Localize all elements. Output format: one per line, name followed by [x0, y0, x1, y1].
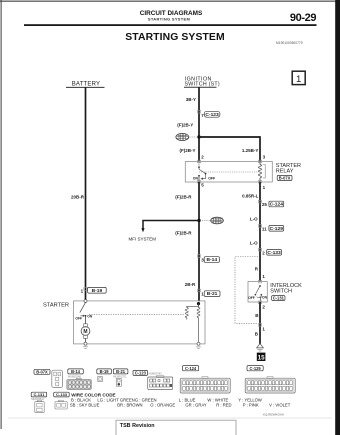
wire relay pin1 down to interlock switch: [259, 182, 261, 282]
A/T bypass dashed outline: [235, 257, 258, 324]
ground point number 15: [257, 353, 266, 362]
svg-text:O : ORANGE: O : ORANGE: [150, 402, 175, 407]
starter M1: box: [74, 301, 206, 344]
connector C-133 tick: [258, 248, 261, 251]
starter case ground left: [83, 342, 88, 348]
page right black bar: [335, 0, 340, 435]
connector label C-131 (legend): [31, 392, 47, 397]
ignition switch feed bar: [184, 86, 217, 88]
svg-text:C-124: C-124: [270, 202, 284, 208]
svg-text:C-129: C-129: [270, 226, 284, 232]
svg-text:OFF: OFF: [248, 296, 255, 300]
svg-text:V : VIOLET: V : VIOLET: [269, 402, 291, 407]
connector B-21 tick: [197, 289, 200, 292]
svg-text:MU801371: MU801371: [113, 374, 127, 378]
header rule: [24, 24, 317, 26]
svg-text:15: 15: [258, 354, 265, 361]
svg-text:RELAY: RELAY: [276, 169, 294, 175]
interlock switch: box: [248, 282, 267, 303]
svg-text:M1901000500779: M1901000500779: [276, 41, 303, 45]
svg-text:SWITCH: SWITCH: [270, 289, 292, 295]
connector label C-129 (legend): [247, 366, 263, 371]
page top border: [0, 1, 337, 2]
wire branch to MFI system: [143, 221, 199, 229]
svg-text:MU802546: MU802546: [68, 374, 82, 378]
wire battery to starter (20B-R): [85, 87, 87, 301]
svg-text:C-131: C-131: [34, 392, 46, 397]
svg-text:B-14: B-14: [206, 257, 217, 263]
numbered marker box 1: [292, 71, 305, 85]
svg-text:C-129: C-129: [250, 366, 262, 371]
connector label B-14 (legend): [68, 369, 84, 374]
svg-text:B-19: B-19: [92, 288, 103, 294]
svg-text:L-O: L-O: [250, 217, 258, 222]
svg-text:C-133: C-133: [267, 250, 281, 256]
connector C-123 tick: [197, 110, 200, 113]
interlock switch contact: [255, 280, 263, 303]
connector label C-131: [272, 296, 285, 301]
svg-text:B-07X: B-07X: [279, 175, 291, 180]
junction node MFI branch: [197, 219, 200, 222]
svg-text:ON: ON: [193, 177, 199, 181]
connector label B-21: [204, 291, 220, 297]
svg-text:OFF: OFF: [75, 316, 82, 320]
svg-text:ON: ON: [87, 315, 93, 319]
relay coil: [258, 162, 265, 182]
svg-text:STARTING SYSTEM: STARTING SYSTEM: [148, 16, 191, 21]
connector face C-124: [180, 377, 230, 393]
svg-text:M: M: [83, 329, 87, 335]
wire ignition switch down (3B-Y): [198, 87, 200, 161]
connector label C-124 (legend): [183, 366, 199, 371]
wire color code line 2: [70, 402, 291, 407]
svg-text:C-123: C-123: [135, 370, 147, 375]
svg-text:C-124: C-124: [185, 366, 197, 371]
TSB Revision box: [116, 420, 236, 435]
connector face B-19: [98, 377, 103, 382]
svg-text:L-O: L-O: [250, 240, 258, 245]
wire relay pin5 down to starter solenoid: [198, 182, 200, 301]
connector tick at bypass join: [258, 324, 261, 327]
starter motor: [81, 324, 90, 342]
svg-text:KQJRZWKGAA: KQJRZWKGAA: [263, 412, 284, 416]
svg-text:B-19: B-19: [100, 369, 110, 374]
solenoid mechanical dashed link: [89, 314, 184, 316]
svg-text:1: 1: [296, 74, 301, 85]
battery feed bar: [66, 86, 105, 88]
solenoid hold-in coil: [197, 304, 200, 343]
connector label C-133: [267, 250, 282, 256]
svg-text:P : PINK: P : PINK: [243, 402, 259, 407]
wire branch to starter relay coil: [199, 137, 260, 162]
starter relay U: box: [185, 162, 272, 183]
svg-text:BR : BROWN: BR : BROWN: [117, 402, 142, 407]
connector face C-123: [148, 376, 173, 390]
connector face C-131: [35, 400, 44, 412]
connector B-19 tick: [84, 288, 87, 291]
connector face B-21: [116, 378, 121, 386]
wire color code line 1: [71, 398, 262, 403]
junction node at ignition wire: [197, 135, 200, 138]
connector label C-124: [269, 201, 284, 207]
svg-text:TSB Revision: TSB Revision: [120, 423, 155, 429]
svg-text:SB : SKY BLUE: SB : SKY BLUE: [70, 402, 100, 407]
svg-text:25: 25: [262, 202, 268, 207]
svg-text:BATTERY: BATTERY: [72, 82, 101, 88]
svg-text:GR : GRAY: GR : GRAY: [185, 402, 207, 407]
svg-text:1.25B-Y: 1.25B-Y: [242, 148, 259, 153]
connector face B-07X: [52, 370, 63, 387]
connector label B-19 (legend): [97, 369, 112, 374]
page left border: [1, 0, 2, 429]
svg-text:90-29: 90-29: [290, 12, 316, 24]
svg-text:B-07X: B-07X: [36, 369, 48, 374]
connector face B-14: [67, 378, 91, 389]
joint connector oval A: [176, 133, 197, 140]
svg-text:MFI SYSTEM: MFI SYSTEM: [129, 236, 157, 241]
joint connector oval B: [202, 217, 223, 224]
starter case ground right: [196, 342, 201, 348]
svg-text:0.85R-L: 0.85R-L: [242, 194, 259, 199]
connector label B-21 (legend): [113, 369, 128, 374]
svg-text:(F)2B-Y: (F)2B-Y: [177, 122, 193, 127]
svg-text:20B-R: 20B-R: [71, 195, 85, 200]
svg-text:STARTING SYSTEM: STARTING SYSTEM: [125, 32, 224, 43]
relay internal dashed link: [199, 171, 257, 173]
svg-text:OFF: OFF: [208, 177, 216, 181]
svg-text:B-21: B-21: [207, 291, 218, 297]
connector face C-129: [245, 377, 295, 393]
starter terminal circle: [84, 300, 87, 303]
svg-text:MU803783: MU803783: [149, 372, 163, 376]
connector label C-133 (legend): [54, 392, 69, 397]
connector label C-123: [204, 111, 220, 118]
svg-text:C-133: C-133: [56, 392, 68, 397]
svg-text:(F)2B-Y: (F)2B-Y: [180, 148, 196, 153]
svg-text:STARTER: STARTER: [43, 303, 69, 309]
connector label B-07X (legend): [34, 369, 50, 374]
wire interlock to ground: [259, 302, 261, 344]
ground symbol: [257, 344, 264, 351]
footer faint rule: [8, 417, 332, 419]
svg-text:(F)2B-R: (F)2B-R: [175, 194, 192, 199]
svg-text:C-131: C-131: [273, 296, 285, 301]
svg-text:2B-R: 2B-R: [185, 282, 196, 287]
solenoid pull-in coil: [185, 304, 198, 320]
starter switch contact: [80, 302, 87, 323]
svg-text:B-14: B-14: [71, 369, 81, 374]
connector label C-123 (legend): [133, 370, 148, 375]
connector label B-07X: [277, 175, 292, 180]
svg-text:ON: ON: [262, 296, 268, 300]
starter relay contact arm: [198, 162, 207, 182]
svg-text:(F)2B-R: (F)2B-R: [175, 230, 192, 235]
svg-text:3B-Y: 3B-Y: [186, 97, 196, 102]
connector B-14 tick: [197, 255, 200, 258]
connector face C-133: [55, 400, 67, 409]
solenoid junction: [197, 302, 200, 305]
connector label C-129: [269, 226, 284, 232]
connector label B-14: [204, 257, 219, 263]
svg-text:B-21: B-21: [116, 369, 126, 374]
connector C-124 tick: [258, 200, 261, 203]
svg-text:11: 11: [262, 227, 267, 232]
svg-text:R : RED: R : RED: [216, 402, 231, 407]
svg-text:C-123: C-123: [205, 112, 219, 118]
connector label B-19: [88, 287, 107, 294]
relay pin ticks: [197, 160, 200, 163]
connector C-129 tick: [258, 225, 261, 228]
